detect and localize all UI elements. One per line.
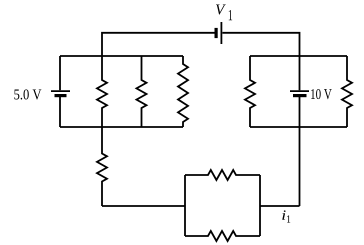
resistor R6 (parallel pair, bottom) <box>185 231 260 241</box>
wire: parallel pair right edge <box>259 175 261 236</box>
wire: left block top rail <box>60 55 183 57</box>
wire: 5.0V battery bottom lead <box>59 97 61 127</box>
resistor R2 (left block, branch 2) <box>137 56 147 127</box>
wire: bottom horizontal from R4 to parallel pair <box>102 205 185 207</box>
wire: parallel pair left edge <box>184 175 186 236</box>
battery 10 V: negative short plate <box>293 94 307 97</box>
wire: 10V battery bottom lead down to node i1 <box>299 97 301 206</box>
wire: right block top rail <box>250 55 347 57</box>
wire: bottom right horizontal to node i1 <box>260 205 300 207</box>
resistor R1 (left block, branch 1) <box>97 56 107 127</box>
wire: from left-block top rail up and right to V1 negative terminal <box>102 33 215 56</box>
label 5.0 V <box>14 89 41 99</box>
resistor R5 (parallel pair, top) <box>185 170 260 180</box>
battery 5.0 V: negative short plate <box>55 94 67 97</box>
wire: 5.0V battery top lead <box>59 56 61 90</box>
label i1 <box>282 210 285 219</box>
battery 10 V: positive long plate <box>290 90 309 92</box>
wire: V1 positive terminal right and down to 10V battery top <box>222 33 299 90</box>
battery V1 (top): positive long plate <box>220 22 222 44</box>
wire: left block bottom rail <box>60 126 183 128</box>
resistor R7 (right block, left branch) <box>245 56 255 127</box>
resistor R8 (right block, right branch) <box>342 56 352 127</box>
label V1 <box>216 5 226 15</box>
label 10 V <box>311 89 332 99</box>
wire: right block bottom rail <box>250 126 347 128</box>
battery V1 (top): negative short plate <box>215 28 218 38</box>
battery 5.0 V: positive long plate <box>51 90 70 92</box>
resistor R4 (bottom left vertical) <box>97 127 107 206</box>
resistor R3 (left block, long branch 3) <box>178 56 188 127</box>
